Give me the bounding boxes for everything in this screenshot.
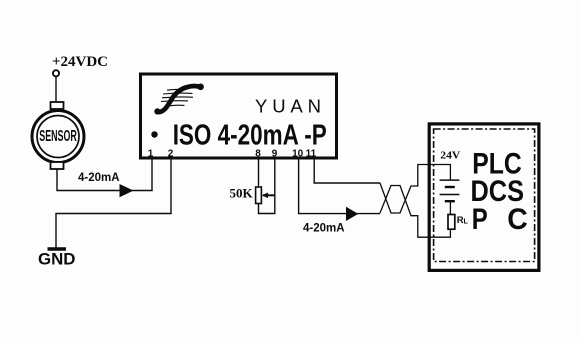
- svg-text:L: L: [464, 218, 469, 225]
- sensor top terminal: [51, 102, 64, 109]
- svg-text:50K: 50K: [230, 186, 254, 201]
- terminal circle +24VDC: [53, 70, 59, 76]
- svg-text:10: 10: [292, 149, 304, 160]
- isolator module U1 box: [141, 74, 337, 158]
- svg-text:24V: 24V: [440, 149, 460, 161]
- logo script f main stroke: [157, 86, 200, 112]
- current arrow 4-20mA left: [120, 184, 134, 197]
- current arrow 4-20mA right: [346, 207, 358, 221]
- svg-text:8: 8: [255, 149, 261, 160]
- wire pin 9 to potentiometer bottom: [259, 158, 275, 214]
- svg-text:1: 1: [148, 149, 154, 160]
- svg-text:SENSOR: SENSOR: [39, 128, 77, 145]
- sensor body outer circle: [32, 111, 84, 163]
- bullet point: [151, 131, 157, 137]
- twisted pair wire A: [380, 165, 450, 214]
- logo script f flourish lines: [161, 89, 193, 106]
- svg-text:9: 9: [272, 149, 278, 160]
- wire battery to resistor RL: [449, 201, 451, 214]
- svg-text:4-20mA: 4-20mA: [303, 223, 345, 235]
- sensor body inner circle: [37, 116, 79, 158]
- svg-text:11: 11: [306, 149, 317, 160]
- svg-text:4-20mA: 4-20mA: [78, 172, 120, 184]
- svg-text:+24VDC: +24VDC: [52, 54, 108, 70]
- potentiometer wiper arrow: [263, 194, 275, 196]
- ground bar: [48, 247, 67, 250]
- PLC box inner dash-dot border: [434, 129, 535, 262]
- wire pin 11 to twisted pair top: [314, 158, 380, 183]
- wire pin 2 to ground: [56, 158, 171, 248]
- sensor bottom terminal: [51, 162, 64, 169]
- wire sensor to pin 1: [57, 158, 152, 191]
- svg-text:C: C: [507, 203, 528, 236]
- svg-text:P: P: [472, 203, 488, 236]
- svg-text:2: 2: [168, 149, 174, 160]
- potentiometer 50K body: [256, 187, 262, 204]
- battery 24V plates: [440, 179, 460, 181]
- wire pin 8 to potentiometer: [258, 158, 260, 187]
- svg-text:GND: GND: [38, 250, 76, 269]
- svg-text:ISO 4-20mA -P: ISO 4-20mA -P: [173, 119, 327, 151]
- twisted pair wire B: [380, 186, 450, 238]
- wire terminal to sensor: [55, 77, 57, 103]
- PLC box outer border: [429, 124, 539, 271]
- resistor RL body: [448, 215, 455, 230]
- wire pin 10 to twisted pair bottom: [299, 158, 380, 214]
